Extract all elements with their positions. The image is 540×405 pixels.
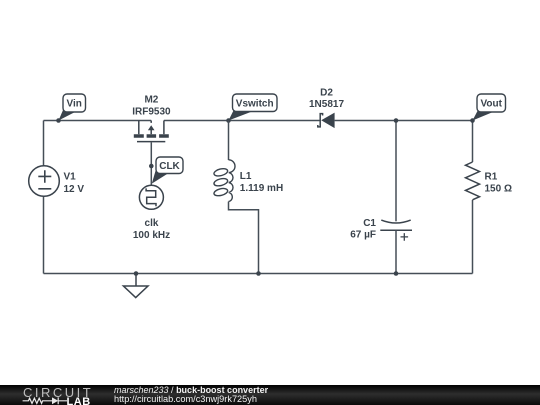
svg-text:IRF9530: IRF9530 bbox=[132, 107, 171, 118]
junction node Vout bbox=[470, 118, 475, 123]
svg-text:100 kHz: 100 kHz bbox=[133, 230, 170, 241]
clock source clk bbox=[139, 185, 163, 209]
wire bottom rail bbox=[44, 273, 473, 275]
svg-text:LAB: LAB bbox=[67, 396, 91, 405]
wire top rail middle segment (M2 to D2) bbox=[164, 120, 320, 122]
wire M2 gate to clk source bbox=[150, 142, 152, 185]
CircuitLab logo bbox=[20, 385, 116, 405]
svg-text:67 µF: 67 µF bbox=[350, 230, 376, 241]
voltage source V1 bbox=[29, 166, 60, 197]
wire top rail right segment (D2 to Vout) bbox=[335, 120, 473, 122]
junction node CLK bbox=[149, 164, 154, 169]
wire right rail upper (Vout to R1) bbox=[472, 121, 474, 163]
wire right rail lower (R1 to bottom rail) bbox=[472, 200, 474, 274]
logo resistor + diode bbox=[23, 397, 67, 404]
diode D2 (Schottky) bbox=[318, 113, 335, 129]
net flag Vout bbox=[473, 94, 506, 121]
svg-text:R1: R1 bbox=[485, 171, 498, 182]
wire C1 top (top rail to C1) bbox=[395, 121, 397, 222]
svg-text:1.119 mH: 1.119 mH bbox=[240, 183, 283, 194]
svg-text:CLK: CLK bbox=[159, 161, 180, 172]
junction node Vin bbox=[56, 118, 61, 123]
wire top rail left segment (Vin to M2) bbox=[44, 120, 152, 122]
footer bar bbox=[0, 385, 540, 405]
svg-text:L1: L1 bbox=[240, 171, 252, 182]
svg-text:150 Ω: 150 Ω bbox=[485, 184, 512, 195]
M2 source arrow bbox=[148, 125, 155, 130]
svg-text:V1: V1 bbox=[64, 172, 77, 183]
svg-text:M2: M2 bbox=[144, 95, 158, 106]
svg-text:C1: C1 bbox=[363, 218, 376, 229]
capacitor C1 bbox=[380, 220, 412, 241]
svg-text:1N5817: 1N5817 bbox=[309, 99, 344, 110]
wire left rail upper (top rail to V1) bbox=[43, 121, 45, 166]
svg-text:Vin: Vin bbox=[67, 99, 82, 110]
wire Vswitch down to L1 bbox=[228, 121, 230, 161]
wire L1 bottom jog to bottom rail bbox=[229, 202, 259, 274]
svg-text:Vswitch: Vswitch bbox=[236, 98, 274, 109]
inductor L1 bbox=[213, 160, 235, 202]
net flag Vin bbox=[59, 94, 86, 121]
net flag CLK bbox=[152, 157, 183, 184]
junction ground bottom rail bbox=[134, 271, 139, 276]
wire left rail lower (V1 to bottom rail) bbox=[43, 196, 45, 273]
wire C1 bottom (C1 to bottom rail) bbox=[395, 230, 397, 273]
footer text bbox=[114, 386, 268, 405]
ground bbox=[123, 274, 148, 298]
junction C1 bottom rail bbox=[394, 271, 399, 276]
svg-text:12 V: 12 V bbox=[64, 184, 85, 195]
svg-text:D2: D2 bbox=[320, 88, 333, 99]
svg-text:clk: clk bbox=[145, 218, 159, 229]
svg-text:Vout: Vout bbox=[480, 99, 502, 110]
junction node Vswitch bbox=[226, 118, 231, 123]
net flag Vswitch bbox=[229, 94, 278, 121]
resistor R1 bbox=[466, 162, 480, 200]
junction C1 top rail bbox=[394, 118, 399, 123]
junction L1 bottom rail bbox=[256, 271, 261, 276]
transistor M2 (P-MOSFET) bbox=[134, 121, 169, 142]
